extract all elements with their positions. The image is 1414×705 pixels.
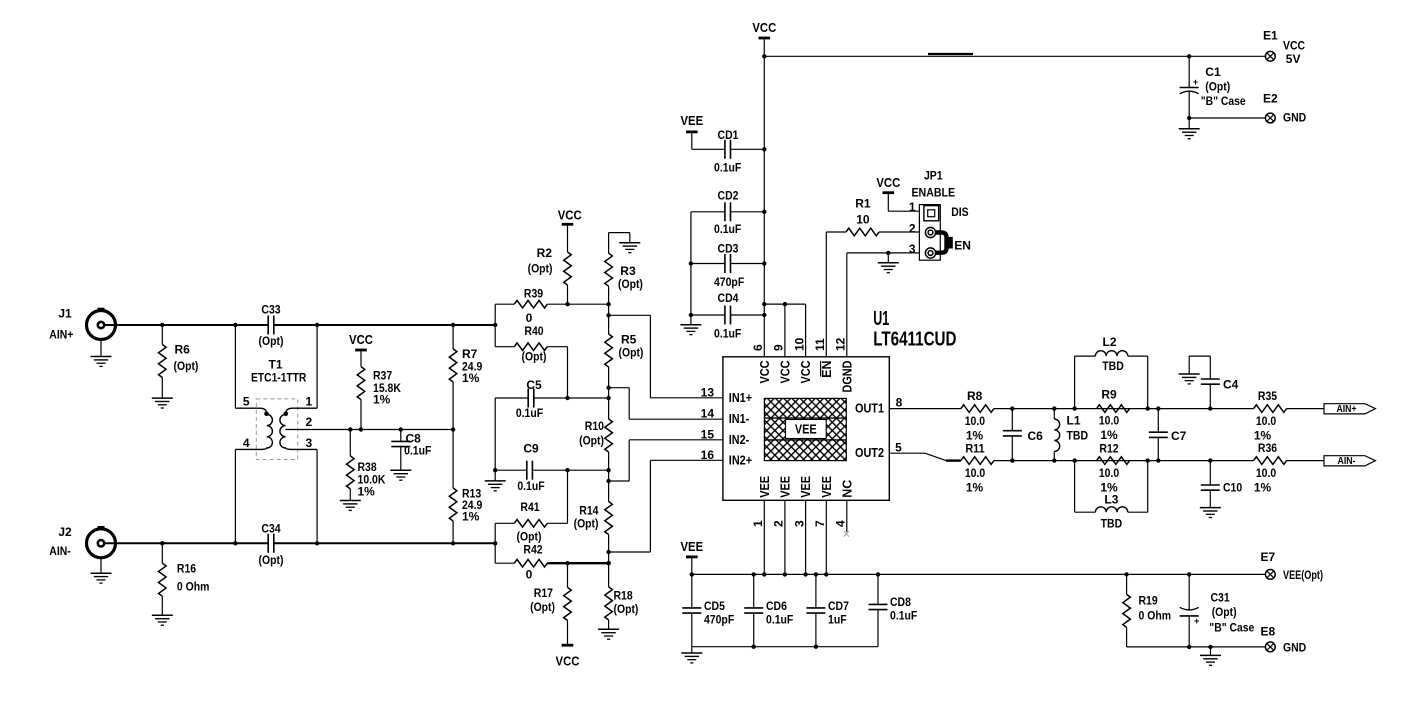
ground xyxy=(1200,647,1221,665)
ground xyxy=(878,253,899,273)
svg-text:1%: 1% xyxy=(462,510,480,524)
wire pin 3 xyxy=(805,500,807,574)
svg-text:1uF: 1uF xyxy=(828,613,847,627)
capacitor C1 (polarized) xyxy=(1180,56,1246,118)
svg-text:AIN-: AIN- xyxy=(49,544,71,558)
svg-text:(Opt): (Opt) xyxy=(522,350,547,364)
ground xyxy=(1200,508,1221,518)
svg-text:3: 3 xyxy=(306,436,313,450)
svg-text:(Opt): (Opt) xyxy=(1212,605,1237,619)
svg-text:NC: NC xyxy=(840,480,854,498)
svg-text:VCC: VCC xyxy=(558,207,582,222)
op-amp U1 LT6411CUD xyxy=(723,308,957,500)
svg-text:AIN+: AIN+ xyxy=(49,328,73,342)
svg-text:DGND: DGND xyxy=(840,361,854,393)
connector J2 (BNC, AIN-) xyxy=(49,525,115,558)
capacitor CD3 xyxy=(691,242,764,289)
svg-text:C33: C33 xyxy=(261,303,280,317)
wire bottom return (left) xyxy=(692,645,878,649)
svg-text:GND: GND xyxy=(1283,110,1306,124)
svg-text:16: 16 xyxy=(701,448,715,462)
ground xyxy=(1179,374,1200,384)
svg-text:DIS: DIS xyxy=(951,205,968,219)
wire pin 1 xyxy=(763,500,765,574)
svg-text:CD2: CD2 xyxy=(718,188,739,202)
svg-text:VEE: VEE xyxy=(778,476,792,498)
capacitor CD1 xyxy=(692,128,765,175)
capacitor C8 xyxy=(391,430,431,471)
svg-text:R12: R12 xyxy=(1099,441,1118,455)
svg-text:VCC: VCC xyxy=(758,361,772,384)
wire AIN- main xyxy=(104,541,497,545)
ground xyxy=(152,398,173,408)
resistor R41 xyxy=(495,470,567,543)
svg-text:3: 3 xyxy=(792,520,806,527)
capacitor C9 xyxy=(493,442,609,494)
svg-text:CD6: CD6 xyxy=(766,599,787,613)
svg-text:5: 5 xyxy=(243,395,250,409)
svg-text:(Opt): (Opt) xyxy=(618,277,643,291)
svg-text:R39: R39 xyxy=(524,287,543,301)
svg-text:IN2-: IN2- xyxy=(729,433,750,447)
capacitor C7 xyxy=(1149,409,1187,461)
svg-text:0.1uF: 0.1uF xyxy=(890,609,917,623)
power VCC (JP1) xyxy=(876,175,919,211)
svg-text:AIN+: AIN+ xyxy=(1336,404,1356,415)
svg-text:CD4: CD4 xyxy=(718,291,739,305)
svg-text:VEE: VEE xyxy=(758,476,772,498)
capacitor C31 (polarized) xyxy=(1180,574,1255,647)
svg-text:3: 3 xyxy=(909,242,916,256)
svg-text:J1: J1 xyxy=(58,307,72,321)
svg-text:C10: C10 xyxy=(1223,481,1242,495)
power VCC (R2) xyxy=(558,207,582,252)
wire bottom return (right) xyxy=(1127,645,1266,649)
ground xyxy=(91,558,112,583)
svg-text:12: 12 xyxy=(834,337,848,351)
svg-text:(Opt): (Opt) xyxy=(1205,80,1230,94)
svg-text:10: 10 xyxy=(792,337,806,351)
svg-text:0.1uF: 0.1uF xyxy=(516,406,543,420)
resistor R14 xyxy=(574,502,613,587)
U1 pin names xyxy=(729,361,884,498)
svg-text:L1: L1 xyxy=(1067,414,1081,428)
resistor R16 xyxy=(159,543,210,615)
svg-text:TBD: TBD xyxy=(1102,359,1124,373)
svg-text:R2: R2 xyxy=(537,246,553,260)
svg-text:ENABLE: ENABLE xyxy=(911,186,955,200)
resistor R2 xyxy=(528,246,572,304)
svg-text:0: 0 xyxy=(526,311,533,325)
ground xyxy=(1179,118,1200,139)
svg-text:1%: 1% xyxy=(358,485,376,499)
svg-text:1: 1 xyxy=(909,200,916,214)
svg-text:VEE: VEE xyxy=(799,476,813,498)
U1 pin numbers xyxy=(751,337,848,527)
svg-text:4: 4 xyxy=(834,520,848,527)
svg-text:13: 13 xyxy=(701,385,715,399)
jumper JP1 ENABLE xyxy=(909,169,971,261)
ground xyxy=(619,243,640,253)
resistor R17 xyxy=(530,563,571,645)
svg-text:R8: R8 xyxy=(967,389,983,403)
wire VCC rail to E1 xyxy=(764,54,1265,59)
svg-text:R35: R35 xyxy=(1258,389,1277,403)
svg-text:VCC: VCC xyxy=(1283,39,1305,53)
svg-text:E2: E2 xyxy=(1263,92,1278,106)
capacitor C34 xyxy=(259,522,284,568)
terminal E2 GND xyxy=(1263,92,1307,125)
svg-text:(Opt): (Opt) xyxy=(259,334,284,348)
svg-text:(Opt): (Opt) xyxy=(528,262,553,276)
wire to pin 15 IN2- xyxy=(609,427,723,481)
capacitor CD6 xyxy=(744,574,793,646)
svg-text:(Opt): (Opt) xyxy=(259,553,284,567)
svg-text:R17: R17 xyxy=(534,586,553,600)
svg-text:E7: E7 xyxy=(1260,550,1275,564)
svg-text:LT6411CUD: LT6411CUD xyxy=(873,329,956,351)
ground xyxy=(390,470,411,480)
svg-text:10.0: 10.0 xyxy=(1099,466,1120,480)
svg-text:0.1uF: 0.1uF xyxy=(404,444,431,458)
wire AIN+ main xyxy=(104,323,497,327)
wire pin 11 to R1 xyxy=(825,232,827,357)
svg-text:C1: C1 xyxy=(1205,65,1221,79)
power VCC (main) xyxy=(752,20,776,38)
svg-text:R14: R14 xyxy=(579,504,598,518)
wire to E2 xyxy=(1187,116,1265,120)
wire OUT2 pin 5 xyxy=(889,440,961,460)
node column left bottom (R41/R42) xyxy=(494,523,496,563)
connector J1 (BNC, AIN+) xyxy=(49,307,115,342)
svg-text:1: 1 xyxy=(306,395,313,409)
resistor R36 xyxy=(1254,441,1324,494)
svg-text:OUT1: OUT1 xyxy=(855,402,884,416)
svg-text:0.1uF: 0.1uF xyxy=(766,613,793,627)
svg-text:1: 1 xyxy=(751,520,765,527)
svg-text:10.0: 10.0 xyxy=(1256,466,1277,480)
inductor L2 xyxy=(1075,335,1148,409)
svg-text:(Opt): (Opt) xyxy=(174,359,199,373)
node AIN- output tag xyxy=(1324,456,1375,468)
svg-text:VCC: VCC xyxy=(752,20,776,35)
svg-text:CD7: CD7 xyxy=(828,599,849,613)
wire OUT1 row xyxy=(994,406,1254,410)
svg-text:(Opt): (Opt) xyxy=(530,600,555,614)
svg-text:CD1: CD1 xyxy=(718,128,739,142)
svg-text:R3: R3 xyxy=(620,264,636,278)
resistor R13 xyxy=(449,430,482,544)
svg-text:VEE: VEE xyxy=(795,422,817,436)
svg-text:VCC: VCC xyxy=(876,175,900,190)
svg-text:R42: R42 xyxy=(523,543,542,557)
svg-text:0 Ohm: 0 Ohm xyxy=(177,580,210,594)
resistor R9 xyxy=(1097,388,1130,442)
svg-text:EN: EN xyxy=(954,238,971,252)
svg-text:IN1+: IN1+ xyxy=(729,391,752,405)
resistor R19 xyxy=(1123,574,1171,647)
wire OUT2 row xyxy=(994,458,1254,462)
svg-text:IN1-: IN1- xyxy=(729,412,750,426)
svg-text:R41: R41 xyxy=(520,500,539,514)
svg-text:10.0: 10.0 xyxy=(1256,414,1277,428)
resistor R42 xyxy=(495,543,611,582)
svg-text:VCC: VCC xyxy=(349,332,373,347)
svg-text:EN: EN xyxy=(820,361,834,378)
ground xyxy=(681,647,702,663)
svg-text:2: 2 xyxy=(772,520,786,527)
svg-text:0.1uF: 0.1uF xyxy=(714,222,741,236)
svg-text:+: + xyxy=(1193,77,1198,87)
svg-text:CD8: CD8 xyxy=(890,595,911,609)
capacitor C5 xyxy=(495,378,608,420)
ground xyxy=(340,501,361,511)
resistor R12 xyxy=(1097,441,1130,494)
resistor R40 xyxy=(495,324,567,398)
svg-text:C34: C34 xyxy=(261,522,280,536)
wire pin 4 NC xyxy=(844,500,849,536)
resistor R18 xyxy=(605,587,639,629)
svg-text:7: 7 xyxy=(813,520,827,527)
wire OUT1 pin 8 xyxy=(889,396,961,410)
svg-text:4: 4 xyxy=(243,436,250,450)
svg-text:E1: E1 xyxy=(1263,29,1278,43)
node column (C5-C9) xyxy=(494,398,496,470)
svg-text:GND: GND xyxy=(1283,640,1306,654)
svg-text:C9: C9 xyxy=(523,442,539,456)
svg-text:VCC: VCC xyxy=(556,654,580,669)
svg-text:1%: 1% xyxy=(966,480,984,494)
wire VCC vertical xyxy=(762,38,766,357)
svg-text:IN2+: IN2+ xyxy=(729,453,752,467)
svg-text:5V: 5V xyxy=(1286,52,1301,66)
resistor R1 xyxy=(826,197,919,236)
svg-text:470pF: 470pF xyxy=(704,613,734,627)
svg-text:2: 2 xyxy=(909,221,916,235)
wire pin 12 to JP1 pin 3 xyxy=(847,251,920,357)
svg-text:R9: R9 xyxy=(1101,388,1117,402)
svg-text:R11: R11 xyxy=(965,441,984,455)
power VCC (R17, below) xyxy=(556,645,580,668)
svg-text:(Opt): (Opt) xyxy=(574,517,599,531)
ground xyxy=(485,470,506,491)
svg-text:14: 14 xyxy=(701,407,715,421)
svg-text:(Opt): (Opt) xyxy=(517,529,542,543)
capacitor CD2 xyxy=(691,188,764,236)
node column left top (R39/R40) xyxy=(494,304,496,347)
ground xyxy=(680,315,701,335)
svg-text:470pF: 470pF xyxy=(714,275,744,289)
wire to pin 14 IN1- xyxy=(609,388,723,421)
svg-text:R6: R6 xyxy=(175,343,191,357)
svg-text:E8: E8 xyxy=(1260,625,1275,639)
U1 center pad VEE xyxy=(764,398,846,460)
resistor R11 xyxy=(961,441,994,494)
terminal E7 VEE(Opt) xyxy=(1260,550,1323,582)
svg-text:(Opt): (Opt) xyxy=(619,345,644,359)
svg-text:R40: R40 xyxy=(524,324,543,338)
resistor R38 xyxy=(346,430,385,501)
svg-text:"B" Case: "B" Case xyxy=(1209,621,1254,635)
svg-text:0: 0 xyxy=(526,567,533,581)
svg-text:10.0: 10.0 xyxy=(965,414,986,428)
svg-text:OUT2: OUT2 xyxy=(855,446,884,460)
ground xyxy=(598,629,619,639)
svg-text:C31: C31 xyxy=(1211,591,1230,605)
svg-text:0.1uF: 0.1uF xyxy=(714,161,741,175)
wire CD2-CD4 left column xyxy=(689,212,693,317)
svg-text:9: 9 xyxy=(772,344,786,351)
wire to pin 16 IN2+ xyxy=(609,448,723,552)
svg-text:C6: C6 xyxy=(1028,429,1044,443)
svg-text:U1: U1 xyxy=(873,308,889,330)
svg-text:+: + xyxy=(1194,616,1199,626)
resistor R39 xyxy=(495,287,611,325)
node AIN+ output tag xyxy=(1324,404,1375,416)
wire to pin 13 IN1+ xyxy=(609,315,723,399)
resistor R8 xyxy=(961,389,994,442)
resistor R6 xyxy=(159,325,199,398)
svg-text:L3: L3 xyxy=(1104,492,1118,506)
capacitor C10 xyxy=(1201,461,1243,508)
wire T1 pin2 row xyxy=(286,427,456,431)
wire VEE rail xyxy=(690,572,1266,576)
svg-text:TBD: TBD xyxy=(1067,429,1089,443)
terminal E1 VCC 5V xyxy=(1263,29,1305,66)
svg-text:(Opt): (Opt) xyxy=(579,433,604,447)
resistor R5 xyxy=(605,304,644,419)
svg-text:VCC: VCC xyxy=(778,361,792,384)
svg-text:8: 8 xyxy=(896,396,903,410)
wire pin 7 xyxy=(825,500,827,574)
svg-text:R19: R19 xyxy=(1139,594,1158,608)
svg-text:10.0: 10.0 xyxy=(965,466,986,480)
svg-text:ETC1-1TTR: ETC1-1TTR xyxy=(251,370,307,384)
svg-text:0.1uF: 0.1uF xyxy=(714,326,741,340)
svg-text:R5: R5 xyxy=(621,332,637,346)
svg-text:2: 2 xyxy=(306,415,313,429)
capacitor C33 xyxy=(259,303,284,349)
resistor R10 xyxy=(579,419,612,502)
svg-text:5: 5 xyxy=(895,440,902,454)
resistor R7 xyxy=(449,325,482,430)
capacitor CD7 xyxy=(806,574,849,646)
ground xyxy=(91,340,112,367)
svg-text:"B" Case: "B" Case xyxy=(1201,94,1246,108)
svg-text:VCC: VCC xyxy=(799,361,813,384)
svg-text:AIN-: AIN- xyxy=(1338,456,1356,467)
capacitor C6 xyxy=(1003,409,1043,461)
svg-text:JP1: JP1 xyxy=(924,169,943,183)
svg-text:1%: 1% xyxy=(462,371,480,385)
svg-text:10.0: 10.0 xyxy=(1099,414,1120,428)
wire pin 2 xyxy=(784,500,786,574)
capacitor C4 xyxy=(1189,356,1238,409)
svg-text:R10: R10 xyxy=(585,419,604,433)
svg-text:TBD: TBD xyxy=(1101,517,1123,531)
svg-text:R16: R16 xyxy=(177,562,196,576)
svg-text:1%: 1% xyxy=(373,393,391,407)
wire pins 9/10 branch xyxy=(764,302,805,357)
ground xyxy=(152,615,173,625)
capacitor CD5 xyxy=(682,574,734,646)
svg-text:VEE: VEE xyxy=(820,476,834,498)
transformer T1 ETC1-1TTR xyxy=(235,325,317,543)
svg-text:CD5: CD5 xyxy=(704,599,725,613)
svg-text:11: 11 xyxy=(813,338,827,351)
power VEE (rail) xyxy=(681,539,704,574)
inductor L3 xyxy=(1075,461,1148,531)
svg-text:VEE: VEE xyxy=(681,539,704,554)
svg-text:VEE(Opt): VEE(Opt) xyxy=(1283,568,1323,582)
inductor L1 xyxy=(1054,409,1088,461)
svg-text:(Opt): (Opt) xyxy=(614,602,639,616)
svg-text:L2: L2 xyxy=(1102,335,1116,349)
terminal E8 GND xyxy=(1260,625,1306,655)
svg-text:R1: R1 xyxy=(855,197,871,211)
svg-text:6: 6 xyxy=(751,344,765,351)
svg-text:1%: 1% xyxy=(1254,480,1272,494)
resistor R35 xyxy=(1254,389,1324,442)
svg-text:15: 15 xyxy=(701,427,715,441)
resistor R3 xyxy=(605,233,643,305)
svg-text:0.1uF: 0.1uF xyxy=(517,479,544,493)
power VEE (CD1) xyxy=(681,113,704,150)
svg-text:VEE: VEE xyxy=(681,113,704,128)
power VCC (R37) xyxy=(349,332,373,367)
svg-text:10: 10 xyxy=(856,213,870,227)
svg-text:R18: R18 xyxy=(614,589,633,603)
svg-text:0 Ohm: 0 Ohm xyxy=(1139,609,1172,623)
svg-text:R36: R36 xyxy=(1258,441,1277,455)
capacitor CD4 xyxy=(691,291,764,341)
svg-text:C4: C4 xyxy=(1223,378,1239,392)
svg-text:C7: C7 xyxy=(1171,429,1187,443)
resistor R37 xyxy=(357,367,401,430)
capacitor CD8 xyxy=(869,574,918,646)
svg-text:J2: J2 xyxy=(58,525,72,539)
svg-text:C5: C5 xyxy=(526,378,542,392)
svg-text:CD3: CD3 xyxy=(718,242,739,256)
svg-text:1%: 1% xyxy=(1100,428,1118,442)
svg-text:1%: 1% xyxy=(966,428,984,442)
